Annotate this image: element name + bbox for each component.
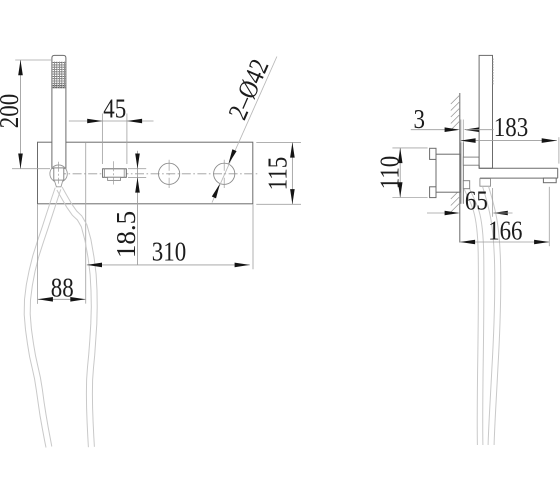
svg-text:166: 166 <box>488 217 522 246</box>
spout aerator notch <box>108 177 121 180</box>
dimension 18.5 <box>111 151 146 265</box>
svg-text:110: 110 <box>376 156 405 190</box>
svg-text:65: 65 <box>465 187 488 216</box>
dimension 183 <box>460 113 559 163</box>
concealed valve body (behind wall) <box>436 154 460 192</box>
svg-text:183: 183 <box>494 113 528 142</box>
spout vertical centerline <box>113 161 115 184</box>
holder vertical centerline <box>58 162 60 184</box>
divider / 88 extension line through plate <box>85 142 87 303</box>
shower holder arm (side view) <box>463 157 479 165</box>
circle 2 vertical centerline <box>223 160 225 188</box>
dimension 200 <box>0 60 52 169</box>
dimension 110 <box>376 148 428 198</box>
svg-text:18.5: 18.5 <box>111 211 141 258</box>
plate (side view, 3mm thick) <box>460 142 462 204</box>
hose outlet box on plate <box>463 181 469 189</box>
svg-text:115: 115 <box>264 157 293 191</box>
valve mounting tab top <box>430 148 436 159</box>
svg-text:88: 88 <box>51 274 74 303</box>
svg-text:45: 45 <box>103 95 126 124</box>
hose strand 1 (side) <box>464 189 478 445</box>
dimension 88 <box>38 205 86 304</box>
dimension 115 <box>256 142 301 204</box>
shower holder block (front view) <box>54 168 64 180</box>
spout (side view) <box>478 165 480 168</box>
spout inner edge lines <box>104 169 106 178</box>
dimension 3 <box>411 105 494 134</box>
hose strand B (front, right loop) <box>57 190 91 447</box>
tub spout (front view) <box>103 169 127 178</box>
hand shower bar (side view) <box>479 55 492 168</box>
wall line <box>459 93 461 243</box>
wall hatching upper <box>451 95 460 130</box>
wall hatching lower <box>451 190 460 212</box>
hose connector cone <box>54 180 63 187</box>
leader line 2-042 <box>212 55 277 202</box>
svg-text:310: 310 <box>152 238 186 267</box>
handle hole circle 1 <box>159 163 180 184</box>
mounting plate (front view) <box>38 142 253 204</box>
valve mounting tab bottom <box>430 187 436 198</box>
spray face ticks on bar edge <box>492 59 494 86</box>
hand shower body (front view) <box>52 55 66 168</box>
plate thickness extension lines <box>460 120 462 143</box>
horizontal centerline <box>57 173 259 175</box>
dimension 310 <box>87 205 253 270</box>
dimension 65 <box>427 187 513 217</box>
dimension 166 <box>460 187 549 246</box>
handle hole circle 2 <box>214 163 235 184</box>
hose nut under spout root <box>480 179 491 187</box>
circle 1 vertical centerline <box>168 160 170 188</box>
shower holder ring (front view) <box>50 165 67 182</box>
spray-face grid on shower head <box>53 62 66 89</box>
svg-text:3: 3 <box>414 105 425 134</box>
spout outlet nub <box>543 178 556 183</box>
hose strand 2 (side) <box>483 186 495 445</box>
svg-text:200: 200 <box>0 94 25 128</box>
hose strand A (front, left loop) <box>24 188 55 448</box>
dimension 45 <box>69 95 154 164</box>
